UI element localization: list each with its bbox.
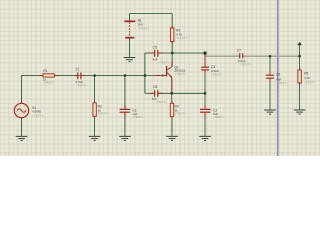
svg-text:R1: R1 — [43, 69, 47, 73]
svg-text:<TEXT>: <TEXT> — [277, 81, 289, 85]
svg-text:<TEXT>: <TEXT> — [158, 61, 170, 65]
svg-text:<TEXT>: <TEXT> — [98, 112, 110, 116]
svg-text:C8: C8 — [153, 85, 157, 89]
svg-text:<TEXT>: <TEXT> — [132, 115, 144, 119]
svg-text:<TEXT>: <TEXT> — [211, 72, 223, 76]
svg-text:C5: C5 — [153, 46, 157, 50]
svg-text:<TEXT>: <TEXT> — [304, 80, 316, 84]
svg-text:<TEXT>: <TEXT> — [174, 72, 186, 76]
svg-text:<TEXT>: <TEXT> — [213, 115, 225, 119]
svg-text:<TEXT>: <TEXT> — [240, 63, 252, 67]
svg-text:<TEXT>: <TEXT> — [175, 112, 187, 116]
svg-text:<TEXT>: <TEXT> — [156, 100, 168, 104]
svg-text:<TEXT>: <TEXT> — [43, 81, 55, 85]
svg-text:C6: C6 — [276, 73, 280, 77]
svg-text:<TEXT>: <TEXT> — [32, 113, 44, 117]
svg-text:<TEXT>: <TEXT> — [176, 36, 188, 40]
svg-text:<TEXT>: <TEXT> — [76, 83, 88, 87]
svg-text:<TEXT>: <TEXT> — [138, 26, 150, 30]
svg-text:C1: C1 — [76, 68, 80, 72]
svg-text:C7: C7 — [237, 49, 241, 53]
